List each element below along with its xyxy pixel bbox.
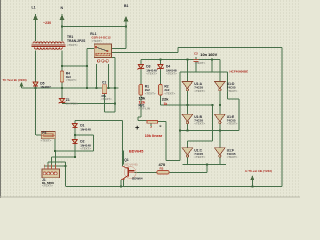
svg-text:<TEXT>: <TEXT> bbox=[227, 155, 238, 159]
svg-text:P5: P5 bbox=[42, 131, 46, 135]
svg-text:D1: D1 bbox=[80, 124, 84, 128]
svg-text:<TEXT>: <TEXT> bbox=[80, 147, 91, 151]
svg-text:<TEXT>: <TEXT> bbox=[227, 89, 238, 93]
svg-text:H Tfr-ext t4b (Y233): H Tfr-ext t4b (Y233) bbox=[245, 169, 272, 173]
svg-text:1N4007: 1N4007 bbox=[40, 85, 51, 89]
svg-text:C1: C1 bbox=[102, 81, 106, 85]
svg-text:D4: D4 bbox=[166, 65, 170, 69]
svg-text:<TEXT>: <TEXT> bbox=[227, 122, 238, 126]
svg-text:D3: D3 bbox=[146, 65, 150, 69]
svg-text:<TEXT>: <TEXT> bbox=[145, 91, 156, 95]
svg-text:<TEXT>: <TEXT> bbox=[195, 61, 206, 65]
svg-text:+: + bbox=[135, 123, 140, 132]
svg-text:<TEXT>: <TEXT> bbox=[194, 155, 205, 159]
svg-text:(BDV64B): (BDV64B) bbox=[124, 163, 138, 167]
svg-text:TRAN-2P2S: TRAN-2P2S bbox=[67, 39, 86, 43]
svg-text:<TEXT>: <TEXT> bbox=[194, 122, 205, 126]
svg-text:10n 160V: 10n 160V bbox=[200, 52, 217, 57]
svg-text:HCF40606BE: HCF40606BE bbox=[230, 69, 249, 73]
svg-text:TR1: TR1 bbox=[67, 35, 73, 39]
svg-text:~230: ~230 bbox=[43, 21, 51, 25]
svg-text:<TEXT>: <TEXT> bbox=[41, 139, 52, 143]
svg-text:POT-LIN: POT-LIN bbox=[139, 106, 150, 110]
svg-text:<TEXT>: <TEXT> bbox=[67, 43, 78, 47]
svg-text:B1: B1 bbox=[124, 4, 129, 8]
svg-text:<TEXT>: <TEXT> bbox=[164, 91, 175, 95]
svg-text:D2: D2 bbox=[80, 140, 84, 144]
svg-text:<TEXT>: <TEXT> bbox=[66, 78, 77, 82]
svg-text:<TEXT>: <TEXT> bbox=[101, 97, 112, 101]
svg-text:BDV645: BDV645 bbox=[129, 149, 143, 153]
svg-text:22k: 22k bbox=[162, 97, 169, 102]
svg-text:L1: L1 bbox=[32, 6, 36, 10]
svg-text:C2: C2 bbox=[194, 52, 198, 56]
svg-text:470: 470 bbox=[159, 162, 166, 167]
svg-text:<TEXT>: <TEXT> bbox=[146, 72, 157, 76]
svg-text:RL1: RL1 bbox=[90, 32, 96, 36]
svg-text:<TEXT>: <TEXT> bbox=[42, 183, 53, 187]
svg-text:<TEXT>: <TEXT> bbox=[194, 89, 205, 93]
svg-text:TC Test kb (V233): TC Test kb (V233) bbox=[3, 78, 27, 82]
svg-text:<TEXT>: <TEXT> bbox=[92, 39, 103, 43]
svg-text:BDW64: BDW64 bbox=[132, 176, 143, 180]
svg-text:R3: R3 bbox=[160, 167, 164, 171]
svg-text:10k linear: 10k linear bbox=[145, 134, 163, 138]
svg-text:1N4148: 1N4148 bbox=[80, 127, 91, 131]
svg-text:1k: 1k bbox=[164, 102, 168, 106]
svg-text:Q1: Q1 bbox=[124, 158, 129, 162]
svg-text:<TEXT>: <TEXT> bbox=[166, 72, 177, 76]
svg-text:1N4733A: 1N4733A bbox=[66, 101, 79, 105]
